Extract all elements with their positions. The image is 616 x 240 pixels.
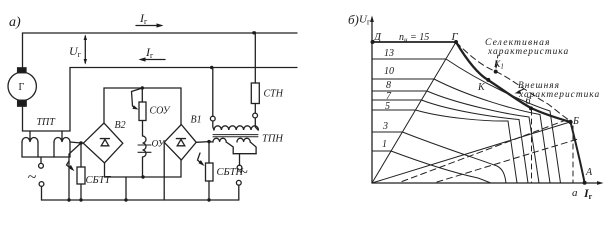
svg-text:13: 13 bbox=[384, 48, 394, 59]
svg-text:ТПТ: ТПТ bbox=[37, 117, 57, 128]
svg-text:10: 10 bbox=[384, 66, 394, 77]
svg-text:Iг: Iг bbox=[583, 186, 593, 201]
svg-text:СОУ: СОУ bbox=[150, 106, 171, 117]
svg-text:а: а bbox=[572, 187, 578, 199]
svg-text:Г: Г bbox=[19, 82, 25, 93]
svg-text:ТПН: ТПН bbox=[262, 134, 284, 145]
svg-text:А: А bbox=[585, 167, 593, 178]
svg-text:а): а) bbox=[9, 15, 21, 30]
svg-text:СТН: СТН bbox=[264, 89, 284, 100]
svg-text:~: ~ bbox=[28, 169, 37, 186]
svg-text:nн = 15: nн = 15 bbox=[399, 32, 429, 44]
svg-text:~: ~ bbox=[240, 165, 248, 181]
svg-text:характеристика: характеристика bbox=[487, 47, 569, 57]
svg-text:В1: В1 bbox=[191, 115, 202, 126]
svg-text:5: 5 bbox=[385, 101, 390, 112]
svg-text:К1: К1 bbox=[493, 60, 504, 71]
svg-text:Uг: Uг bbox=[69, 44, 82, 59]
svg-text:1: 1 bbox=[382, 139, 387, 150]
svg-text:б): б) bbox=[348, 12, 359, 27]
svg-text:Iг: Iг bbox=[139, 11, 148, 26]
svg-text:Uг: Uг bbox=[359, 14, 371, 27]
svg-text:СБТТ: СБТТ bbox=[86, 175, 112, 186]
svg-text:Iг: Iг bbox=[145, 45, 154, 60]
svg-text:Д: Д bbox=[373, 31, 382, 43]
svg-text:3: 3 bbox=[382, 121, 388, 132]
svg-text:ОУ: ОУ bbox=[152, 140, 166, 150]
svg-text:8: 8 bbox=[386, 80, 391, 91]
svg-text:К: К bbox=[477, 82, 486, 93]
svg-text:В2: В2 bbox=[115, 120, 126, 131]
svg-text:Б: Б bbox=[572, 116, 579, 127]
svg-text:Г: Г bbox=[451, 31, 459, 43]
